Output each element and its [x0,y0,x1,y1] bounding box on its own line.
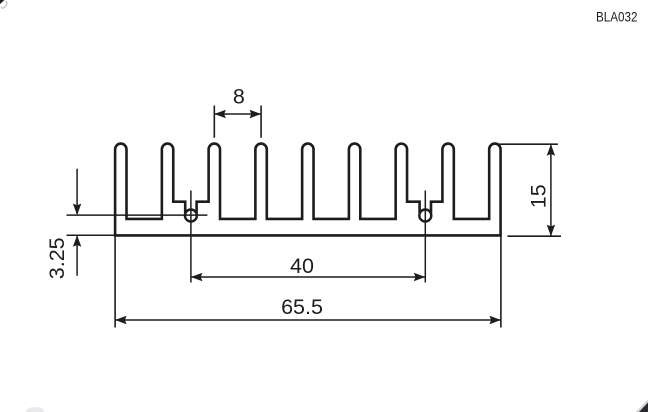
centerline through left screw channel (40 left extension line) [190,191,192,283]
svg-text:8: 8 [233,84,245,108]
heatsink profile outline [115,144,500,236]
extension line top for 15 dimension [497,143,558,145]
faint smudge artifact bottom [26,407,44,412]
corner artifact mark bottom-right [636,400,648,412]
dimension 3.25 upper arrow pointing down [73,204,81,216]
dimension 40 right arrow [414,273,426,281]
extension line right for 8 dimension [260,106,262,138]
centerline horizontal through left screw hole (3.25 upper extension line) [67,214,208,216]
dimension 15 top arrow pointing up [547,144,555,156]
screw channel hole right [419,210,431,222]
dimension 3.25 lower tail line [76,236,78,275]
dimension line 40 [191,276,425,278]
dimension 40 left arrow [191,273,203,281]
svg-text:3.25: 3.25 [45,237,69,279]
corner artifact mark top-left [0,0,5,4]
screw channel hole left [185,210,197,222]
extension line bottom for 15 dimension [507,235,561,237]
svg-text:15: 15 [526,184,550,208]
svg-text:40: 40 [290,254,314,278]
dimension line 15 [550,144,552,236]
dimension line 65.5 [115,319,501,321]
dimension 65.5 right arrow [489,316,501,324]
centerline through right screw channel (40 right extension line) [424,191,426,283]
dimension 65.5 left arrow [115,316,127,324]
svg-text:BLA032: BLA032 [596,8,638,24]
dimension line 8 [214,113,261,115]
dimension 8 left arrow [214,110,226,118]
dimension 3.25 lower arrow pointing up [73,235,81,247]
dimension 3.25 upper tail line [76,169,78,214]
extension line lower for 3.25 dimension [67,234,115,236]
dimension 8 right arrow [250,110,261,118]
svg-text:65.5: 65.5 [281,295,323,319]
extension line left for 8 dimension [213,106,215,138]
extension line left for 65.5 dimension [114,236,116,328]
dimension 15 bottom arrow pointing down [547,225,555,237]
extension line right for 65.5 dimension [500,236,502,328]
